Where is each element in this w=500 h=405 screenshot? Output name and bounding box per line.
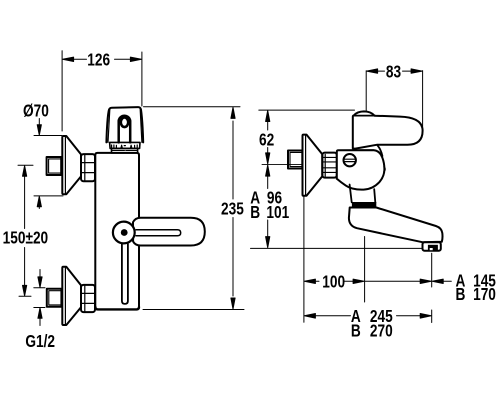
bottom connector pipe stub G1/2 xyxy=(47,289,62,307)
svg-text:270: 270 xyxy=(370,322,393,341)
dim 96 arrow up xyxy=(266,165,270,176)
lever grip slot xyxy=(136,230,181,236)
handle top ext line xyxy=(259,109,355,111)
dim 83 line xyxy=(376,70,412,72)
svg-text:Ø70: Ø70 xyxy=(23,102,49,121)
side flange right face inner line xyxy=(324,154,326,176)
svg-text:83: 83 xyxy=(386,63,401,82)
side pipe stub xyxy=(288,151,302,169)
bottom escutcheon flange xyxy=(62,267,81,325)
screw slot xyxy=(344,159,356,161)
dim 126 arrow left xyxy=(63,57,74,61)
dim 245 line xyxy=(315,315,422,317)
top pipe inner lines xyxy=(49,159,61,173)
dim G1/2 tick top xyxy=(34,287,45,289)
neck flare below handle xyxy=(378,146,383,157)
dim 100 arrow left xyxy=(304,279,315,283)
top hex nut xyxy=(81,154,95,181)
bottom hex nut xyxy=(81,285,95,312)
dim 83 arrow left xyxy=(367,69,378,73)
side escutcheon flange xyxy=(303,135,323,196)
dim 145 line xyxy=(365,280,422,282)
dim G1/2 arrow down xyxy=(38,270,42,288)
dim Ø70 arrow up xyxy=(37,196,41,208)
bottom nut facet lines xyxy=(81,286,95,312)
spout pivot ext line xyxy=(364,237,366,303)
svg-text:100: 100 xyxy=(322,273,345,292)
top nut facet lines xyxy=(81,155,95,181)
band 1 ticks xyxy=(112,145,138,148)
dim 62 arrow up xyxy=(266,111,270,122)
dim 62 arrow down xyxy=(266,153,270,164)
lever arm xyxy=(122,244,128,304)
dim 150 line upper xyxy=(24,176,26,229)
dim 126 ext line left xyxy=(61,51,63,131)
side body nub xyxy=(384,167,385,172)
dim Ø70 ext line top xyxy=(34,135,62,137)
dim 150 arrow up xyxy=(23,166,27,177)
dim 150 tick bottom xyxy=(19,295,31,297)
cap ring xyxy=(121,118,128,128)
dim 100 arrow right xyxy=(353,279,364,283)
spout joint neck xyxy=(350,185,376,203)
dim 83 arrow right xyxy=(411,69,422,73)
dim 62 line xyxy=(267,121,269,154)
wall face ext line xyxy=(303,197,305,323)
dim 126 ext line right xyxy=(141,52,143,106)
svg-text:62: 62 xyxy=(259,131,274,150)
bottom pipe inner lines xyxy=(49,291,62,305)
dim 235 arrow down xyxy=(231,298,235,309)
side hex nut xyxy=(322,153,337,178)
side nut facet lines xyxy=(322,157,337,172)
dim 126 line xyxy=(74,58,131,60)
dim 96 line lower xyxy=(267,220,269,238)
top escutcheon flange xyxy=(62,136,81,194)
svg-text:126: 126 xyxy=(87,51,110,70)
side body block xyxy=(337,150,385,190)
aerator insert xyxy=(428,245,438,250)
dim 235 arrow up xyxy=(231,107,235,118)
side connector centerline xyxy=(262,163,303,165)
dim 145 arrow right xyxy=(420,279,431,283)
dim 145 leader arrow xyxy=(432,279,443,283)
handle dome chord line xyxy=(354,115,376,117)
body (front view) xyxy=(95,153,139,307)
aerator box xyxy=(423,242,441,250)
knurled band 2 xyxy=(112,148,138,153)
top flange inner rim line xyxy=(64,136,66,193)
knurled band 1 xyxy=(110,142,140,148)
fixing screw xyxy=(344,154,356,166)
swivel joint black band xyxy=(352,202,376,207)
band 2 mid line xyxy=(112,150,138,152)
cap arch xyxy=(119,116,131,143)
dim 83 ext line left xyxy=(365,71,367,111)
dim 83 ext line right xyxy=(422,71,424,128)
svg-text:101: 101 xyxy=(266,203,289,222)
dim 96 arrow down xyxy=(266,237,270,248)
svg-text:235: 235 xyxy=(221,200,244,219)
aerator ext line xyxy=(431,253,433,322)
svg-text:B: B xyxy=(351,322,361,341)
svg-text:150±20: 150±20 xyxy=(3,229,49,248)
spout xyxy=(349,208,443,243)
body bottom edge (thick) xyxy=(95,307,139,309)
svg-text:B: B xyxy=(250,203,260,222)
dim 150 arrow down xyxy=(23,285,27,296)
side pipe inner lines xyxy=(290,152,302,166)
dim 150 tick top xyxy=(18,164,33,166)
dim 245 arrow left xyxy=(304,314,315,319)
svg-text:170: 170 xyxy=(473,285,496,304)
dim G1/2 arrow up xyxy=(38,308,42,326)
dim 145 leader tail xyxy=(442,280,452,282)
dim 150 line lower xyxy=(24,248,26,288)
dim 126 arrow right xyxy=(130,57,141,61)
dim Ø70 arrow down xyxy=(37,119,41,136)
handle (side view) xyxy=(353,111,423,148)
dim Ø70 ext line bottom xyxy=(34,195,63,197)
dim G1/2 tick bottom xyxy=(34,307,45,309)
cartridge cap xyxy=(106,107,143,142)
bottom flange inner rim line xyxy=(64,267,66,324)
dim 245 arrow right xyxy=(420,314,431,319)
lever pivot circle xyxy=(113,222,135,244)
dim 100 line xyxy=(314,280,353,282)
top connector pipe stub G1/2 xyxy=(47,157,62,175)
svg-text:G1/2: G1/2 xyxy=(25,332,55,351)
dim 96 line upper xyxy=(267,175,269,189)
dim 235 line xyxy=(232,121,234,296)
svg-text:B: B xyxy=(455,285,465,304)
aerator insert notch xyxy=(430,248,433,250)
side flange inner rim line xyxy=(305,135,307,195)
dim 235 ext line top xyxy=(144,106,241,108)
lever handle grip capsule (front) xyxy=(133,218,205,246)
cap inner edge lines xyxy=(108,110,142,143)
dim 235 ext line bottom xyxy=(143,309,244,311)
outlet reference line xyxy=(251,247,423,249)
lever pivot screw dot xyxy=(121,229,128,236)
